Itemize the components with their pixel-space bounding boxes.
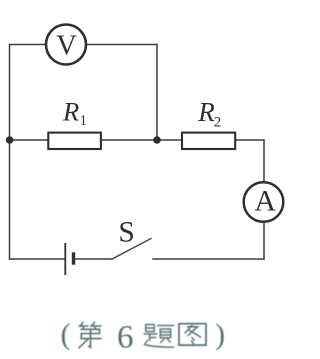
- label S: [118, 217, 134, 249]
- caption char 题: [144, 325, 174, 348]
- svg-text:): ): [215, 319, 225, 351]
- resistor R2 box: [182, 133, 235, 149]
- wire top left (corner to voltmeter): [10, 44, 46, 46]
- svg-text:V: V: [56, 30, 77, 61]
- wire bottom left (corner to battery): [10, 258, 65, 260]
- svg-text:2: 2: [214, 114, 222, 130]
- switch S blade: [112, 239, 152, 260]
- wire bottom right (switch contact to corner): [153, 258, 264, 260]
- caption (第 6 题图): [61, 319, 225, 355]
- short plate: [72, 252, 75, 264]
- svg-text:S: S: [118, 217, 134, 249]
- wire right vertical lower (ammeter to bottom corner): [263, 223, 265, 259]
- caption char 图: [179, 324, 206, 345]
- battery B1: [65, 243, 73, 275]
- svg-text:R: R: [197, 97, 215, 127]
- label R2: [197, 97, 221, 131]
- wire left vertical: [9, 45, 11, 260]
- long plate: [64, 243, 66, 275]
- wire middle left (node to R1): [10, 139, 48, 141]
- junction node left (R1/V tap): [6, 136, 14, 144]
- junction node right (R1/R2 tap): [153, 136, 161, 144]
- svg-text:1: 1: [80, 113, 88, 129]
- wire top right (voltmeter to corner): [87, 44, 158, 46]
- wire right vertical upper (corner to ammeter): [263, 140, 265, 182]
- svg-text:6: 6: [117, 320, 134, 356]
- voltmeter V circle: [46, 25, 86, 65]
- wire middle right (R2 to right corner): [236, 139, 264, 141]
- svg-text:A: A: [254, 184, 276, 217]
- ammeter label A: [254, 184, 276, 217]
- wire bottom (battery to switch pivot): [75, 258, 112, 260]
- svg-text:R: R: [62, 97, 79, 127]
- svg-text:(: (: [61, 319, 71, 351]
- label R1: [62, 97, 87, 129]
- voltmeter label V: [56, 30, 77, 61]
- wire top-right vertical drop to junction: [156, 45, 158, 141]
- resistor R1 box: [48, 133, 101, 149]
- wire middle (R1 to junction): [102, 139, 157, 141]
- wire middle (junction to R2): [157, 139, 181, 141]
- ammeter A circle: [244, 182, 284, 222]
- caption char 第: [79, 322, 101, 348]
